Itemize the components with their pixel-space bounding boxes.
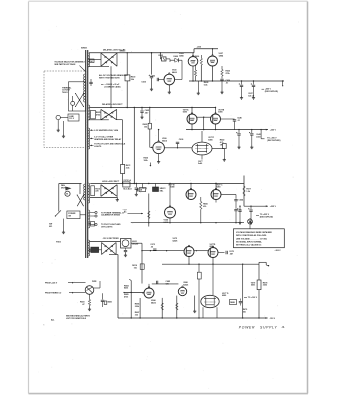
note pilot light winding xyxy=(90,143,126,148)
wire xyxy=(186,183,244,184)
wire xyxy=(198,279,200,318)
transformer T601 secondary windings xyxy=(88,53,90,256)
svg-text:-150 V: -150 V xyxy=(270,318,276,320)
label +350V decoupled xyxy=(267,138,280,142)
svg-text:6AU6: 6AU6 xyxy=(151,301,156,304)
capacitor C615 xyxy=(89,249,90,252)
capacitor C688 xyxy=(239,299,242,306)
tube V636 6AU6 xyxy=(153,141,165,154)
svg-text:.01: .01 xyxy=(237,120,240,122)
capacitor C630 xyxy=(220,79,223,90)
label to +100V xyxy=(244,297,258,299)
ground xyxy=(150,88,153,91)
wire row3 lower rail xyxy=(131,222,244,223)
capacitor C601 xyxy=(89,79,92,86)
resistor R672 xyxy=(121,165,131,174)
label R679 xyxy=(243,309,248,313)
svg-text:B601: B601 xyxy=(108,302,113,304)
svg-text:SW601: SW601 xyxy=(81,47,87,49)
ground xyxy=(88,308,91,311)
bridge rectifier SR676 xyxy=(102,243,117,255)
wire grid V684 xyxy=(123,292,144,293)
label C664 xyxy=(239,199,244,212)
terminal block 6.3V tap xyxy=(88,222,94,227)
label +225V tap xyxy=(140,188,148,190)
capacitor C673 xyxy=(153,249,156,251)
label C627 xyxy=(248,93,255,97)
wire xyxy=(243,176,245,207)
svg-text:CALIBRATOR SW600: CALIBRATOR SW600 xyxy=(101,214,120,217)
svg-text:2x40: 2x40 xyxy=(198,162,202,165)
wire xyxy=(216,195,236,203)
tube V677B 6080 xyxy=(211,113,221,124)
wire +225V output bus xyxy=(244,205,268,207)
line plug P601 xyxy=(56,115,68,119)
svg-text:R626: R626 xyxy=(195,56,200,58)
ground xyxy=(240,96,243,99)
note mechanical parts xyxy=(66,314,91,319)
svg-text:LV600 +225V RECT: LV600 +225V RECT xyxy=(102,181,120,183)
svg-text:F672 1A: F672 1A xyxy=(124,179,132,182)
wire xyxy=(169,184,171,208)
label SR600 xyxy=(120,51,126,53)
tube V677B 6080 xyxy=(186,188,196,199)
label SW601 xyxy=(81,47,87,49)
svg-text:6080: 6080 xyxy=(222,295,226,297)
resistor R601 xyxy=(90,59,95,63)
svg-text:FROM THERM CO: FROM THERM CO xyxy=(45,292,62,294)
capacitor C636 xyxy=(176,139,184,148)
note C600 xyxy=(101,84,121,88)
wire xyxy=(90,197,117,198)
wire cathodes xyxy=(192,124,216,130)
wire xyxy=(79,184,81,195)
selector switch SW601 body xyxy=(69,82,86,111)
capacitor C678 xyxy=(248,206,253,222)
capacitor C605 xyxy=(140,107,143,116)
label SW601 xyxy=(49,224,52,228)
tube V675 6AU6 xyxy=(184,245,194,256)
wire xyxy=(94,281,100,288)
bridge rectifier SR672 xyxy=(101,185,117,197)
note voltage selector assembly xyxy=(54,60,85,71)
wire xyxy=(110,66,112,107)
label R678 xyxy=(263,282,268,286)
svg-text:.01: .01 xyxy=(226,82,229,84)
svg-text:6.3V HEATERS V600, V624: 6.3V HEATERS V600, V624 xyxy=(94,129,119,132)
svg-text:6080: 6080 xyxy=(218,112,222,114)
label V636 xyxy=(162,138,167,142)
svg-text:SEE PARTS LIST PAGE: SEE PARTS LIST PAGE xyxy=(54,63,76,66)
label +500 xyxy=(197,46,202,48)
wire xyxy=(58,184,60,212)
label V677B xyxy=(218,109,224,113)
wire xyxy=(194,296,196,310)
label +100V tap xyxy=(275,250,282,252)
label V627 xyxy=(219,53,224,57)
label R686 xyxy=(135,304,140,308)
svg-text:R602: R602 xyxy=(159,55,164,57)
label V677A xyxy=(183,108,189,113)
wire xyxy=(200,55,202,58)
resistor R681 xyxy=(197,264,201,279)
label 1V AC xyxy=(123,209,143,214)
label C685 xyxy=(166,281,171,285)
ground xyxy=(250,146,253,149)
wire xyxy=(122,174,124,184)
wire xyxy=(212,258,214,265)
svg-text:2x40: 2x40 xyxy=(256,135,260,138)
fuse F672 xyxy=(123,179,132,190)
wire xyxy=(207,107,216,114)
capacitor C676 xyxy=(124,248,127,254)
wire xyxy=(242,264,244,318)
tube V677E 6080 xyxy=(201,295,219,307)
wire grid V636 xyxy=(150,129,153,148)
wire xyxy=(148,194,150,227)
label R630 xyxy=(226,71,231,75)
wire +350V output bus xyxy=(186,129,268,130)
wire xyxy=(191,107,192,114)
wire xyxy=(63,121,65,135)
label from thermal cutout xyxy=(45,292,74,294)
wire xyxy=(212,264,214,295)
svg-text:+350 V: +350 V xyxy=(270,130,277,132)
capacitor C677 xyxy=(237,206,242,222)
label +225V decoupled xyxy=(256,214,273,218)
wire xyxy=(223,149,225,159)
label +225V xyxy=(266,205,277,208)
wire xyxy=(141,250,184,251)
wire xyxy=(109,255,118,319)
svg-text:6AU6: 6AU6 xyxy=(173,240,178,243)
svg-text:(DECOUPLED): (DECOUPLED) xyxy=(260,216,273,218)
tube V664 6AU6 xyxy=(165,206,176,218)
svg-text:6080: 6080 xyxy=(170,187,174,189)
wire xyxy=(197,81,199,92)
wire xyxy=(212,66,214,81)
wire winding to bridge low xyxy=(88,119,109,121)
wire +500 bus jog xyxy=(194,48,218,53)
label V684 xyxy=(151,299,156,304)
resistor R610 xyxy=(91,186,100,196)
label R687 xyxy=(135,312,140,316)
label PWR xyxy=(92,281,97,283)
wire xyxy=(215,183,216,190)
resistor R664 xyxy=(200,197,202,223)
wire xyxy=(203,307,217,318)
svg-text:VOLTAGE SELECTOR ASSEMBLY: VOLTAGE SELECTOR ASSEMBLY xyxy=(54,60,85,63)
line voltage selector dashed enclosure xyxy=(44,71,86,148)
svg-text:6AU6: 6AU6 xyxy=(172,71,177,74)
resistor R615 block xyxy=(91,247,99,252)
svg-text:47: 47 xyxy=(82,303,84,306)
bridge rectifier SR600 xyxy=(101,53,117,66)
svg-text:NO SIGNAL INPUT, NORMAL: NO SIGNAL INPUT, NORMAL xyxy=(236,241,263,244)
svg-text:TO +100 V: TO +100 V xyxy=(248,297,258,299)
wire row3 rail xyxy=(90,183,149,184)
note to power terminal xyxy=(101,211,124,216)
svg-text:WITH CONDITIONS AS FOLLOWS: WITH CONDITIONS AS FOLLOWS xyxy=(236,234,267,237)
pilot lamp B601 xyxy=(85,286,94,295)
svg-text:+100 V: +100 V xyxy=(275,250,282,252)
chassis arrow xyxy=(150,163,152,167)
neon lamp B677 xyxy=(248,218,253,229)
wire xyxy=(192,53,194,56)
resistor R641 xyxy=(222,144,226,149)
diode D600 xyxy=(170,56,182,62)
svg-text:FROM +225 V: FROM +225 V xyxy=(45,282,58,284)
tube V684 6AU6 xyxy=(144,287,154,298)
tube V624 12B4 xyxy=(188,55,198,66)
label R618 xyxy=(80,302,85,306)
ground xyxy=(252,96,255,99)
label C673 xyxy=(150,244,155,248)
capacitor C618 xyxy=(101,293,104,307)
wire xyxy=(57,120,59,129)
label V675 xyxy=(173,238,178,242)
label V624 xyxy=(179,52,184,57)
resistor R687 xyxy=(176,296,178,318)
svg-text:SETTINGS, ALL VALUES DC: SETTINGS, ALL VALUES DC xyxy=(236,243,262,246)
label R640 xyxy=(220,139,225,147)
line range plug xyxy=(68,114,79,121)
note to pilot light xyxy=(101,223,121,228)
wire stub xyxy=(282,81,283,86)
svg-text:CRT LIGHTS: CRT LIGHTS xyxy=(101,226,113,228)
svg-text:WITH VTVM SEE NOTE: WITH VTVM SEE NOTE xyxy=(99,78,120,80)
ground xyxy=(168,91,171,94)
ground xyxy=(116,198,119,201)
wire xyxy=(126,81,128,108)
svg-text:VOLTAGE READINGS WERE OBTAI: VOLTAGE READINGS WERE OBTAINED xyxy=(236,231,272,234)
svg-text:C602: C602 xyxy=(150,76,155,78)
wire xyxy=(188,257,190,265)
tube V627 12B4 xyxy=(208,55,218,66)
resistor R626 xyxy=(195,56,203,65)
transformer T601 core xyxy=(86,50,88,258)
resistor R600 xyxy=(125,75,135,81)
label V677D xyxy=(222,293,229,297)
resistor R605 xyxy=(91,110,101,119)
capacitor C610 xyxy=(138,188,139,191)
time delay relay K601 xyxy=(121,239,132,249)
resistor R630 xyxy=(221,66,223,79)
capacitor C627 xyxy=(251,81,256,96)
thermal relay crossover xyxy=(77,195,84,207)
power switch SW601 box xyxy=(67,211,80,219)
rectifier SR672 block xyxy=(153,184,166,193)
resistor R602 xyxy=(159,55,171,61)
svg-text:DELAYED +500V TO CRT: DELAYED +500V TO CRT xyxy=(103,48,126,51)
svg-text:6080: 6080 xyxy=(208,139,212,141)
wire xyxy=(89,306,91,308)
connector pins J601 xyxy=(90,211,97,217)
wire feed to LV rectifier xyxy=(134,107,135,184)
label R665 xyxy=(203,204,208,208)
wire xyxy=(63,219,65,231)
svg-text:.05: .05 xyxy=(150,247,153,249)
capacitor C675 xyxy=(218,251,234,256)
svg-text:TK601: TK601 xyxy=(62,92,68,94)
ground xyxy=(223,158,226,161)
ground xyxy=(238,221,241,224)
capacitor C684 xyxy=(157,281,158,284)
resistor R605 xyxy=(143,123,152,129)
wire xyxy=(149,107,150,124)
svg-text:C636: C636 xyxy=(179,139,184,141)
resistor R619 xyxy=(104,301,112,304)
note dc voltages xyxy=(99,74,129,80)
svg-text:(DECOUPLED): (DECOUPLED) xyxy=(267,140,280,142)
svg-text:AA,: AA, xyxy=(51,318,55,321)
tube V600 6AU6 xyxy=(164,73,175,85)
wire xyxy=(74,283,86,293)
label +225V rectifier xyxy=(102,181,120,183)
fan B601 blades xyxy=(61,184,72,190)
svg-text:6AU6: 6AU6 xyxy=(162,139,167,142)
fuse F673 xyxy=(139,184,146,192)
wire xyxy=(131,243,142,283)
svg-text:220: 220 xyxy=(95,191,98,193)
wire row1 top rail xyxy=(89,52,194,53)
note heater winding 6.3V xyxy=(90,129,119,132)
resistor R686 xyxy=(161,298,163,318)
label V679 xyxy=(251,282,255,286)
wire xyxy=(212,148,224,150)
voltage reference V679 5651 xyxy=(257,280,261,290)
wire xyxy=(139,298,141,318)
resistor R627 xyxy=(194,65,196,82)
label AA xyxy=(51,318,55,321)
wire row4 rail xyxy=(89,240,120,242)
svg-text:115 V: 115 V xyxy=(69,118,75,120)
wire xyxy=(192,66,194,81)
label V686 xyxy=(183,282,188,286)
capacitor C642 xyxy=(249,130,254,146)
wire +500V output bus xyxy=(189,80,284,81)
svg-text:6080: 6080 xyxy=(183,112,187,114)
wire xyxy=(261,130,264,139)
ground xyxy=(62,231,65,234)
svg-text:.047: .047 xyxy=(145,111,149,114)
bridge rectifier SR622 xyxy=(101,109,117,119)
wire xyxy=(201,155,203,160)
label +350V xyxy=(266,129,277,132)
ground xyxy=(197,92,200,95)
label R684 xyxy=(124,284,129,289)
ground xyxy=(140,116,143,119)
label +500V decoupled xyxy=(262,89,279,93)
capacitor C664 xyxy=(234,195,237,209)
label C630 xyxy=(226,80,231,84)
svg-text:D600: D600 xyxy=(174,56,179,58)
svg-text:LIST FOR GRATICULE: LIST FOR GRATICULE xyxy=(66,317,87,320)
note box voltage readings xyxy=(234,229,285,248)
wire fan feed xyxy=(59,183,82,185)
label -150V rectifier xyxy=(103,238,120,240)
label -150V xyxy=(265,317,275,320)
ground xyxy=(124,254,127,257)
svg-text:125: 125 xyxy=(166,283,169,285)
label T601 xyxy=(56,242,62,244)
wire xyxy=(164,147,192,148)
svg-text:LINE VOLTAGE . . . . . . . .: LINE VOLTAGE . . . . . . . . . 117 VAC xyxy=(236,237,268,240)
svg-text:POWER SUPPLY: POWER SUPPLY xyxy=(239,326,278,330)
label V677D xyxy=(210,244,216,248)
wire xyxy=(117,120,123,165)
svg-text:125 uF: 125 uF xyxy=(248,96,255,98)
label delayed +350V rectifier xyxy=(102,103,123,106)
svg-text:PWR: PWR xyxy=(92,281,97,283)
svg-text:(+225 V): (+225 V) xyxy=(140,188,148,190)
wire xyxy=(212,49,214,56)
ground xyxy=(193,310,196,313)
mark JIL xyxy=(282,326,286,329)
wire xyxy=(159,53,161,59)
capacitor C672 xyxy=(135,184,138,193)
label V677C xyxy=(208,137,214,141)
wire divider xyxy=(129,279,131,318)
svg-text:DELAYED +350V RECT: DELAYED +350V RECT xyxy=(102,103,123,106)
svg-text:(DECOUPLED): (DECOUPLED) xyxy=(265,91,278,93)
transformer T601 primary winding xyxy=(84,74,85,200)
svg-text:+225 V: +225 V xyxy=(270,206,277,208)
label V600 xyxy=(172,69,177,73)
label R685 xyxy=(124,294,129,298)
resistor R674 xyxy=(132,264,144,269)
wire +100V bus xyxy=(162,264,259,265)
svg-text:C600: C600 xyxy=(141,82,146,84)
tube V677A 6080 xyxy=(187,113,197,124)
title POWER SUPPLY xyxy=(239,326,278,330)
capacitor C602 xyxy=(150,76,164,82)
wire xyxy=(190,183,191,190)
wire xyxy=(168,85,170,91)
svg-text:.047: .047 xyxy=(229,252,233,255)
tube V677C 6080 wide xyxy=(192,142,212,155)
ground xyxy=(135,193,138,196)
tube V677C 6080 xyxy=(211,188,221,199)
ground xyxy=(220,91,223,94)
wire xyxy=(258,264,260,280)
label R628 xyxy=(204,82,209,86)
capacitor C665 xyxy=(234,210,237,224)
wire xyxy=(151,52,152,75)
note heater winding all other xyxy=(90,136,122,141)
wire to primary xyxy=(80,214,86,216)
wire winding to bridge xyxy=(88,59,101,61)
wire xyxy=(152,283,179,285)
ground xyxy=(157,160,160,163)
capacitor C640 xyxy=(221,116,242,129)
label V664 xyxy=(164,219,169,224)
svg-text:R688: R688 xyxy=(230,302,235,304)
wire xyxy=(169,218,171,223)
wire xyxy=(142,284,149,293)
page border frame xyxy=(28,2,30,394)
resistor R677 xyxy=(243,186,251,196)
svg-text:-150 V RECTIFIER: -150 V RECTIFIER xyxy=(103,238,120,240)
svg-text:5651: 5651 xyxy=(251,285,255,287)
resistor R618 xyxy=(88,294,90,305)
label C677 xyxy=(198,161,203,165)
label V677B left xyxy=(168,184,175,188)
capacitor C641 xyxy=(236,130,241,146)
wire xyxy=(258,290,260,318)
svg-text:LIGHTS: LIGHTS xyxy=(94,146,102,148)
wire xyxy=(200,65,202,81)
